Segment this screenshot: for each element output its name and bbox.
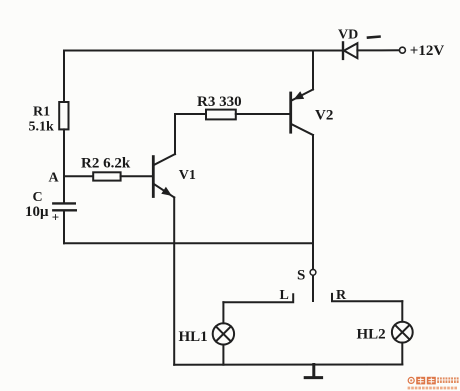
switch S circle	[310, 269, 316, 275]
wire left vertical from top rail to R1	[63, 51, 65, 103]
svg-text:A: A	[49, 171, 60, 186]
wire mid horizontal	[64, 242, 313, 244]
svg-text:R2 6.2k: R2 6.2k	[81, 156, 131, 172]
resistor R1	[59, 102, 68, 129]
svg-text:HL2: HL2	[357, 326, 386, 342]
wire R3 to V2 base	[236, 113, 290, 115]
transistor V1	[153, 154, 175, 197]
wire V2 emitter up to rail	[312, 51, 314, 90]
resistor R3	[206, 110, 236, 120]
svg-text:V2: V2	[315, 107, 333, 123]
resistor R2	[93, 172, 120, 180]
svg-text:C: C	[33, 190, 43, 205]
wire to R3	[175, 113, 206, 115]
diode VD	[343, 42, 357, 59]
ground	[305, 365, 321, 378]
wire top rail	[64, 50, 342, 52]
wire HL2 bottom	[401, 343, 403, 365]
svg-text:10μ: 10μ	[25, 204, 49, 220]
transistor V2	[291, 90, 313, 136]
wire capacitor bottom to mid wire	[63, 211, 65, 243]
wire V2 collector down to switch	[312, 135, 314, 269]
watermark logo	[408, 377, 459, 390]
wire R2 to V1 base	[121, 175, 152, 177]
wire diode to terminal	[357, 49, 399, 51]
wire V1 emitter down to ground rail	[173, 197, 175, 364]
lamp HL2	[392, 322, 413, 343]
lamp HL1	[213, 323, 234, 344]
svg-text:+12V: +12V	[410, 43, 445, 59]
svg-text:S: S	[297, 267, 305, 283]
capacitor C	[53, 203, 76, 210]
wire node A to R2	[64, 175, 93, 177]
svg-text:HL1: HL1	[179, 329, 208, 345]
wire HL1 bottom	[222, 345, 224, 365]
wire V1 collector up	[174, 114, 176, 154]
svg-text:R1: R1	[33, 105, 50, 120]
svg-text:+: +	[52, 210, 59, 225]
switch contact R	[332, 294, 402, 301]
wire HL1 top	[222, 302, 224, 323]
switch S pole blade	[312, 276, 314, 302]
polarity dash mark	[368, 37, 380, 38]
svg-text:V1: V1	[179, 168, 196, 183]
svg-text:5.1k: 5.1k	[29, 120, 55, 135]
svg-text:R3 330: R3 330	[197, 94, 242, 110]
terminal +12V circle	[399, 47, 405, 53]
switch contact L	[223, 294, 293, 302]
svg-text:R: R	[336, 288, 347, 303]
wire HL2 top	[401, 301, 403, 321]
wire bottom rail	[174, 364, 402, 366]
svg-text:VD: VD	[338, 28, 358, 43]
wire R1 to node A to capacitor	[63, 129, 65, 202]
svg-text:L: L	[280, 288, 289, 303]
